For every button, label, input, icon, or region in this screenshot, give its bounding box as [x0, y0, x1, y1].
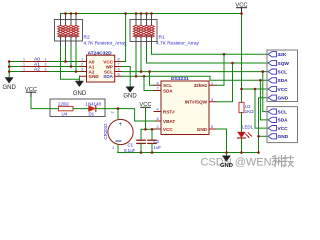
svg-text:SQW: SQW — [278, 61, 290, 67]
svg-text:SDA: SDA — [163, 88, 173, 93]
svg-text:6: 6 — [117, 68, 119, 72]
watermark chinese glyph ji — [283, 156, 293, 167]
wire R2 pin4 to A2 — [75, 41, 77, 47]
capacitor C1 — [124, 129, 145, 153]
svg-text:2: 2 — [156, 125, 158, 129]
connector P2 — [267, 107, 298, 143]
op chip U1 AT24C32D — [80, 50, 123, 82]
svg-text:4.7K Resistor_Array: 4.7K Resistor_Array — [156, 41, 200, 47]
wire diode out / VBAT net — [96, 109, 154, 121]
jumper J1 — [22, 61, 49, 63]
svg-text:1: 1 — [112, 146, 114, 150]
svg-text:5: 5 — [211, 125, 213, 129]
wire VCC net line at DS3231 — [141, 128, 154, 130]
svg-text:AT24C32D: AT24C32D — [88, 50, 113, 56]
svg-text:GND: GND — [220, 163, 233, 169]
ground bottom — [220, 153, 233, 170]
resistor U3 1K — [239, 102, 254, 131]
wire R1 pin4 32K net — [151, 42, 153, 48]
svg-text:1: 1 — [23, 68, 25, 72]
wire SCL net — [122, 71, 268, 73]
wire INT pin3 — [216, 63, 233, 102]
svg-text:2: 2 — [111, 111, 115, 113]
svg-text:8: 8 — [117, 58, 119, 62]
svg-text:6: 6 — [156, 117, 158, 121]
resistor R2 element 3 — [70, 20, 72, 26]
ground WP — [123, 87, 137, 100]
R1 top pin wires — [136, 14, 152, 20]
svg-text:LED1: LED1 — [242, 125, 254, 130]
svg-text:8: 8 — [156, 81, 158, 85]
wire SCL branch to DS3231 — [150, 72, 155, 86]
svg-text:32K: 32K — [278, 52, 287, 58]
wire VCC row to connector — [242, 88, 269, 90]
svg-text:1: 1 — [45, 58, 47, 62]
resistor R1 element 2 — [140, 20, 142, 26]
svg-text:CR2032: CR2032 — [103, 123, 108, 140]
svg-text:VCC: VCC — [278, 87, 289, 93]
wire SCL drop to connector2 — [263, 72, 268, 112]
svg-text:GND: GND — [278, 134, 289, 140]
resistor R1 element 3 — [146, 20, 148, 26]
watermark chinese glyph ke — [272, 156, 283, 167]
svg-text:C1: C1 — [128, 142, 134, 147]
wire VCC pin8 up — [122, 14, 126, 62]
svg-text:GND: GND — [3, 85, 17, 91]
jumper pin numbers — [23, 58, 47, 72]
resistor R2 element 4 — [75, 20, 77, 26]
wire SDA drop to connector2 — [260, 80, 268, 120]
svg-text:SDA: SDA — [278, 78, 289, 84]
op chip U2 DS3231 — [154, 76, 216, 135]
ground left — [3, 78, 17, 91]
wire A1 — [9, 66, 79, 68]
svg-text:RST#: RST# — [163, 109, 175, 114]
connector P1 — [267, 50, 298, 102]
wire bottom GND rail — [118, 152, 259, 154]
svg-text:C2: C2 — [154, 139, 160, 144]
svg-text:VCC: VCC — [235, 2, 247, 8]
wire VCC drop to connector2 — [255, 89, 268, 128]
resistor R2 element 2 — [65, 20, 67, 26]
wire R2 pin2 to A0 — [65, 41, 67, 47]
wire 32kHz pin1 — [216, 54, 224, 85]
wire GND feeder — [259, 98, 269, 153]
wire SDA net — [122, 76, 268, 80]
wire GND to connector2 — [259, 135, 269, 137]
svg-text:R2: R2 — [84, 35, 90, 41]
capacitor C2 — [148, 129, 162, 152]
svg-text:DS3231: DS3231 — [171, 76, 189, 82]
wire A2 — [9, 71, 79, 73]
svg-text:D1: D1 — [89, 112, 95, 117]
wire WP pin7 to gnd — [122, 67, 130, 87]
power port VCC top — [237, 8, 247, 14]
wire R2 pin1 down to GND link — [60, 41, 62, 47]
svg-text:2: 2 — [81, 63, 83, 67]
pin stubs right — [209, 85, 216, 129]
svg-text:1KΩ: 1KΩ — [245, 109, 254, 114]
svg-text:1: 1 — [23, 58, 25, 62]
resistor array R2 box — [55, 20, 83, 42]
wire left bus to GND — [8, 62, 10, 78]
svg-text:GND: GND — [73, 91, 87, 97]
resistor R2 element 1 — [60, 20, 62, 26]
resistor array R1 box — [130, 20, 157, 42]
power port VCC middle — [141, 106, 151, 108]
wire GND pin5 — [216, 129, 227, 153]
svg-text:R1: R1 — [159, 35, 165, 41]
wire A0 — [9, 61, 79, 63]
svg-text:VBAT: VBAT — [163, 119, 175, 124]
svg-text:0.1uF: 0.1uF — [124, 148, 136, 153]
pin stubs left — [80, 62, 87, 77]
svg-text:GND: GND — [278, 96, 289, 102]
svg-text:2: 2 — [45, 63, 47, 67]
jumper J3 — [22, 71, 49, 73]
wire R2 pin3 to A1 — [70, 41, 72, 47]
svg-text:GND: GND — [123, 94, 137, 100]
svg-text:1N4148: 1N4148 — [86, 101, 102, 106]
svg-text:SCL: SCL — [278, 69, 288, 75]
pin stubs left — [154, 85, 161, 129]
svg-text:5: 5 — [117, 73, 119, 77]
svg-text:1uF: 1uF — [154, 145, 162, 150]
svg-text:7: 7 — [117, 63, 119, 67]
jumper J2 — [22, 66, 49, 68]
svg-text:4.7K Resistor_Array: 4.7K Resistor_Array — [84, 41, 128, 47]
R2 top pin wires — [61, 14, 77, 20]
resistor R1 element 1 — [135, 20, 137, 26]
svg-text:1: 1 — [81, 58, 83, 62]
resistor R1 element 4 — [151, 20, 153, 26]
svg-text:3: 3 — [45, 68, 47, 72]
wire resistor to diode — [73, 108, 89, 110]
svg-text:GND: GND — [197, 127, 208, 132]
svg-text:VCC: VCC — [278, 126, 289, 132]
wire R1 pin1 to SDA — [135, 42, 137, 48]
box U4/D1 charging — [50, 99, 105, 117]
svg-text:U4: U4 — [62, 112, 68, 117]
battery BT1 CR2032 — [103, 109, 133, 153]
pin stubs right — [115, 62, 122, 77]
wire VCC vertical right — [241, 14, 243, 103]
svg-text:GND: GND — [89, 74, 100, 79]
wire VCC top rail — [61, 13, 242, 15]
svg-text:VCC: VCC — [163, 127, 173, 132]
svg-text:1: 1 — [211, 81, 213, 85]
svg-text:3: 3 — [211, 98, 213, 102]
svg-text:SDA: SDA — [278, 118, 289, 124]
wire SDA branch to DS3231 — [144, 76, 154, 90]
resistor U4 220 ohm — [59, 106, 74, 110]
svg-text:SDA: SDA — [103, 74, 113, 79]
ground chip pin4 — [73, 76, 87, 97]
svg-text:7: 7 — [156, 87, 158, 91]
svg-text:32kHz: 32kHz — [194, 83, 208, 88]
svg-text:220Ω: 220Ω — [58, 101, 69, 106]
svg-text:VCC: VCC — [25, 87, 37, 93]
svg-text:SCL: SCL — [278, 109, 288, 115]
LED1 — [238, 125, 254, 153]
svg-text:INT#/SQW: INT#/SQW — [185, 100, 208, 105]
svg-text:3: 3 — [81, 68, 83, 72]
diode D1 1N4148 — [89, 106, 96, 112]
svg-text:+: + — [119, 122, 123, 128]
wire R1 pin2 to SCL — [140, 42, 142, 48]
svg-text:1: 1 — [23, 63, 25, 67]
svg-text:4: 4 — [156, 108, 158, 112]
wire R1 pin3 SQW net — [146, 42, 148, 48]
power port VCC left — [26, 92, 35, 97]
